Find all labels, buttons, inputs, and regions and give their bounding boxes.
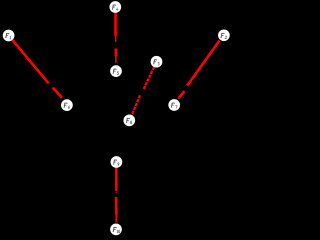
node F1 <box>3 30 15 42</box>
edge F2-F7 <box>178 41 219 99</box>
node F4 <box>109 1 121 13</box>
edge F3-F8 <box>132 67 154 115</box>
edge F9-F10 <box>115 168 118 223</box>
node F6 <box>61 99 73 111</box>
node F7 <box>168 99 180 111</box>
node F5 <box>110 65 122 77</box>
node F8 <box>123 115 135 127</box>
node F9 <box>111 156 123 168</box>
edge F1-F6 <box>12 40 61 98</box>
edge F4-F5 <box>114 13 117 63</box>
node F2 <box>218 29 230 41</box>
node F3 <box>151 56 163 68</box>
node F10 <box>110 224 122 236</box>
